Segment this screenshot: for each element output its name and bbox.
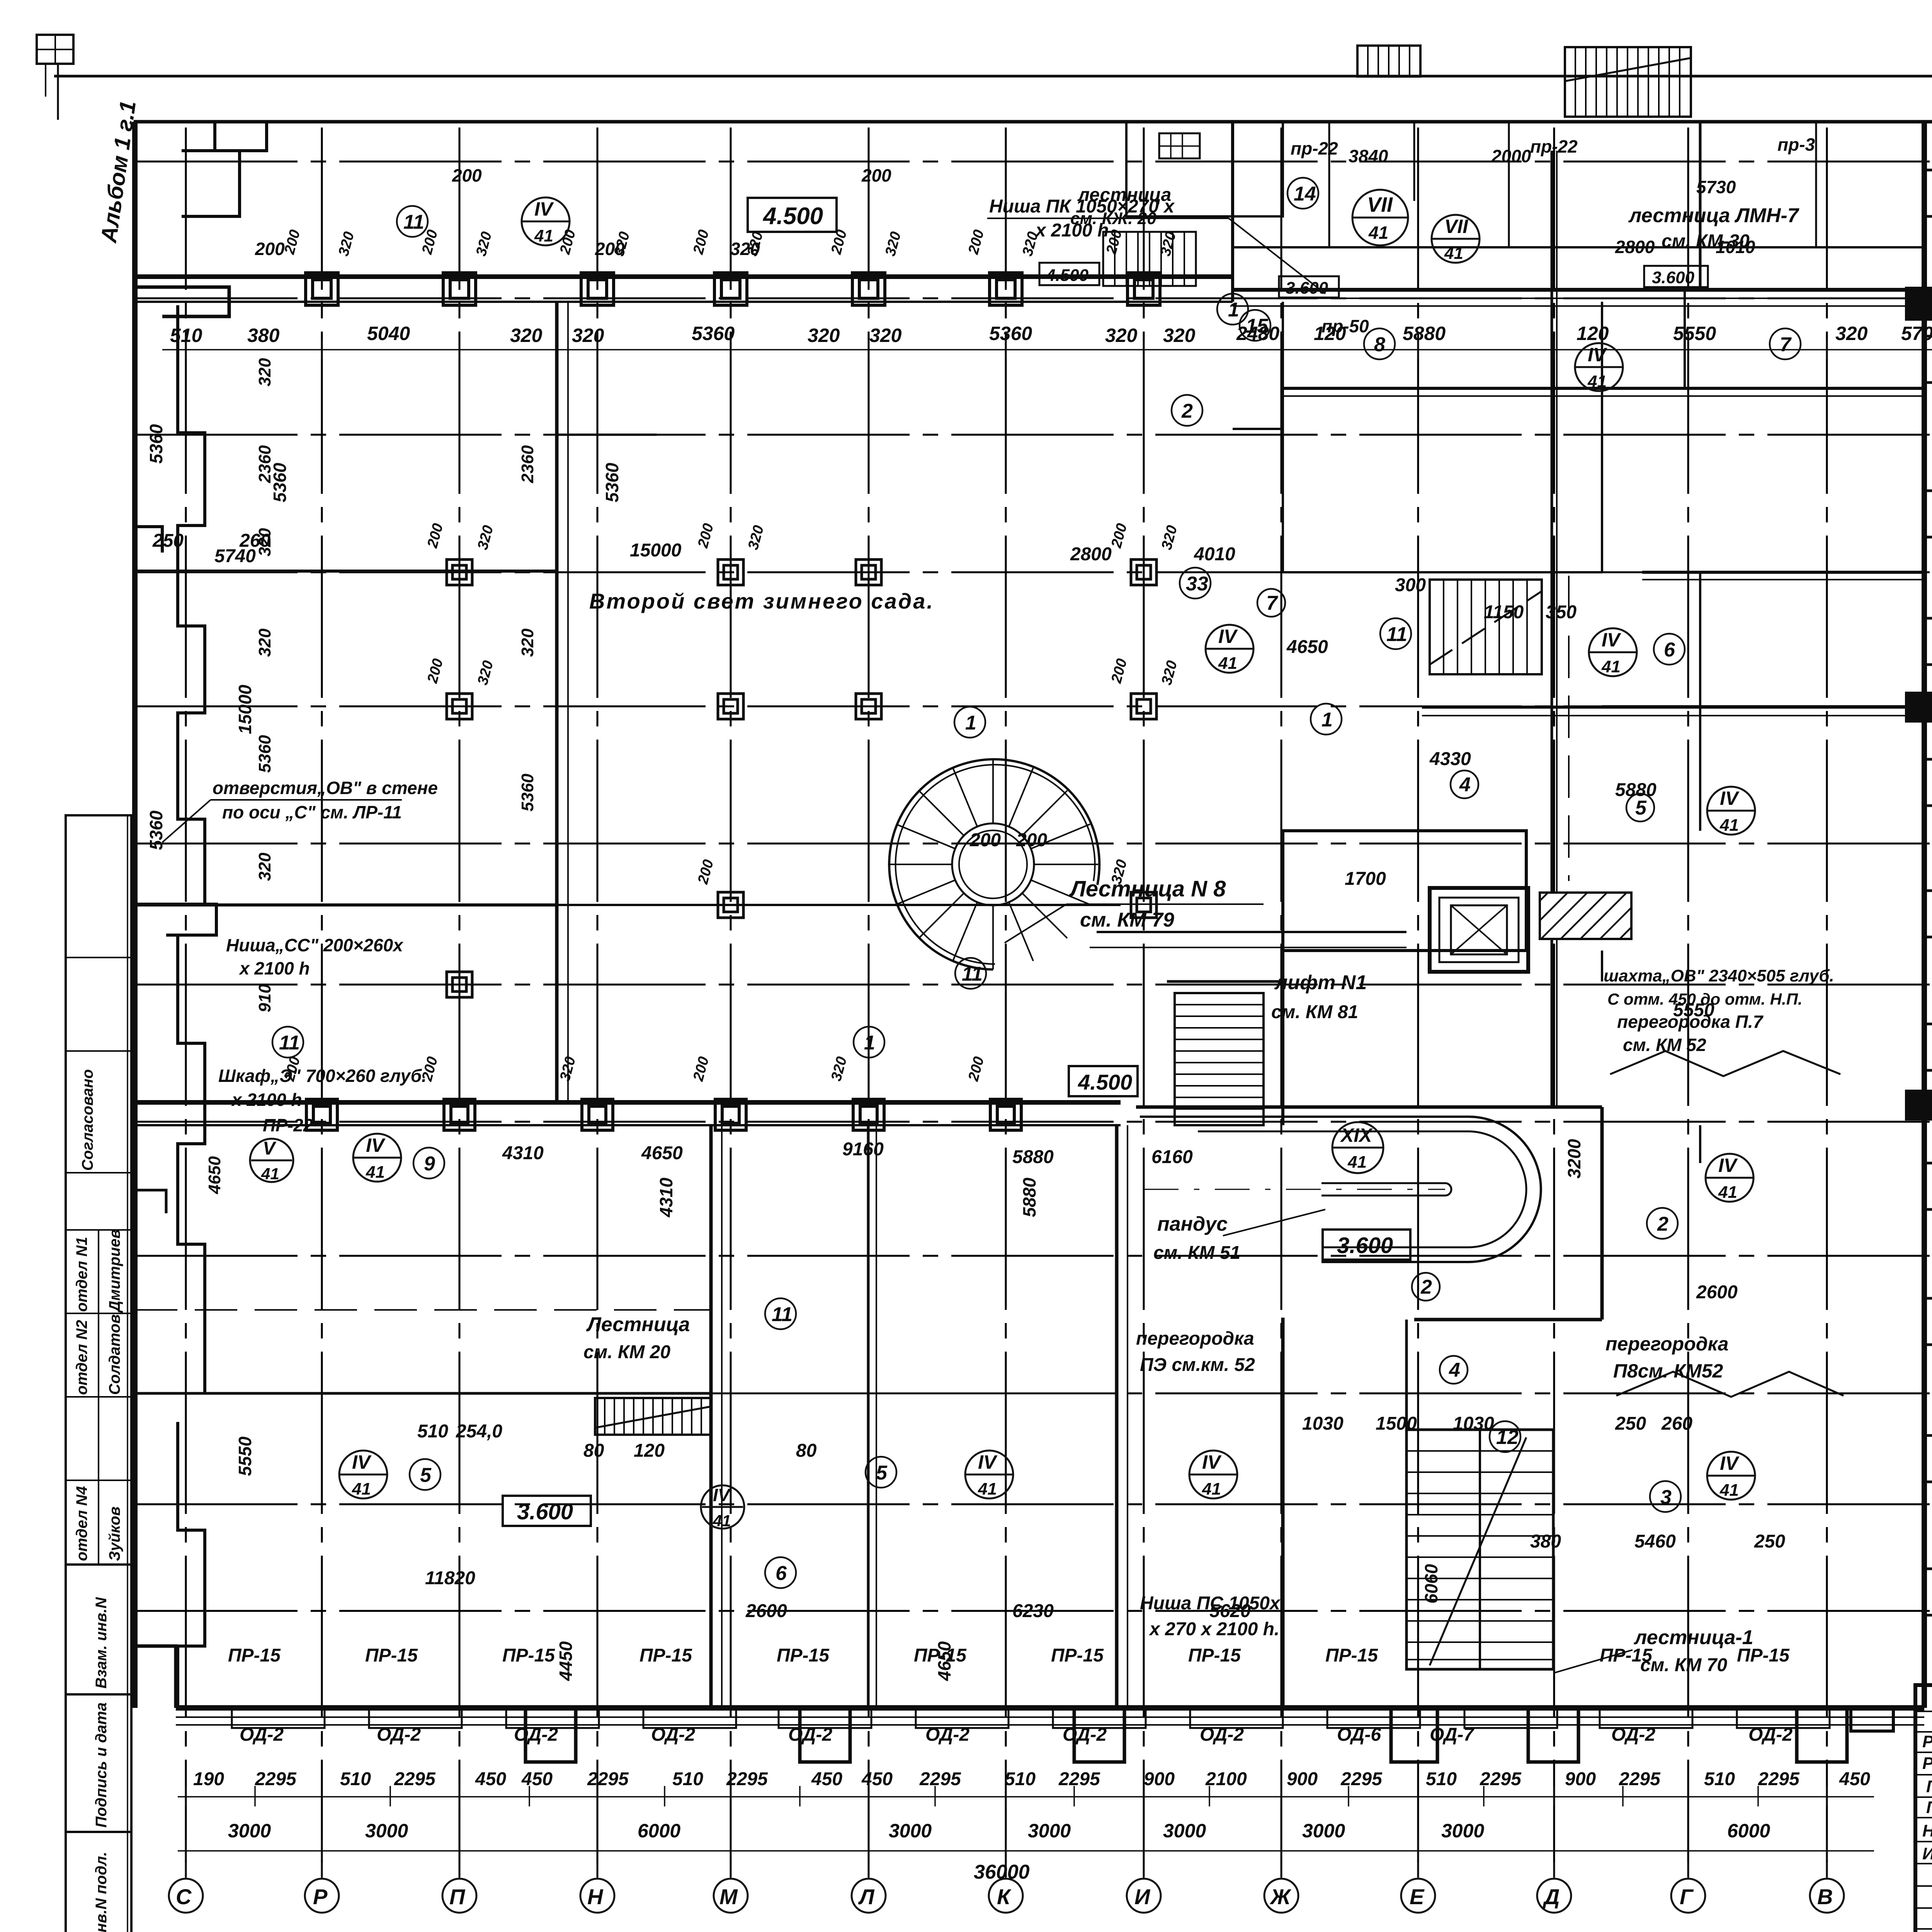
svg-text:41: 41 — [261, 1165, 279, 1183]
svg-text:15: 15 — [1246, 315, 1269, 337]
svg-text:4650: 4650 — [641, 1143, 683, 1163]
room walls right of stair block — [1699, 572, 1701, 831]
top right block: wall x4020 — [1551, 151, 1553, 1107]
svg-text:7: 7 — [1780, 333, 1792, 356]
zigzag partition П.7 — [1610, 1051, 1840, 1076]
svg-text:1150: 1150 — [1484, 602, 1524, 622]
svg-text:х 2100 h: х 2100 h — [238, 958, 310, 978]
horizontal axis 13 — [135, 298, 1932, 299]
svg-text:ПР-22: ПР-22 — [263, 1115, 313, 1135]
winter garden internal wall axis 11 — [135, 570, 557, 573]
svg-text:IV: IV — [1718, 1155, 1738, 1176]
svg-text:М: М — [719, 1884, 738, 1909]
bottom wall inner lines — [176, 1716, 1924, 1718]
svg-text:ПР-15: ПР-15 — [1188, 1645, 1241, 1666]
horizontal axis 4 — [135, 1503, 1932, 1505]
svg-text:отдел N4: отдел N4 — [73, 1486, 90, 1561]
svg-text:5: 5 — [420, 1464, 432, 1486]
svg-text:2295: 2295 — [919, 1769, 961, 1789]
svg-text:320: 320 — [255, 528, 274, 556]
svg-text:2800: 2800 — [1615, 237, 1655, 257]
elevation box 4.500 small — [1039, 263, 1099, 285]
bottom window labels ОД-2 — [240, 1725, 1793, 1745]
svg-text:320: 320 — [474, 524, 497, 551]
svg-text:320: 320 — [869, 325, 902, 346]
svg-text:6000: 6000 — [1727, 1820, 1770, 1842]
svg-text:ОД-2: ОД-2 — [377, 1725, 421, 1745]
svg-text:4: 4 — [1449, 1359, 1460, 1381]
svg-text:320: 320 — [510, 325, 543, 346]
svg-text:2800: 2800 — [1070, 544, 1112, 565]
svg-text:ОД-2: ОД-2 — [240, 1725, 284, 1745]
svg-text:3200: 3200 — [1564, 1139, 1584, 1179]
svg-text:ГИП: ГИП — [1926, 1798, 1932, 1817]
mid area dims — [152, 531, 1785, 1621]
svg-text:5360: 5360 — [146, 810, 166, 850]
svg-text:1030: 1030 — [1302, 1413, 1344, 1434]
svg-text:15000: 15000 — [235, 685, 255, 734]
svg-text:3000: 3000 — [228, 1820, 271, 1842]
vertical axis М — [730, 128, 732, 1877]
letter axis circle К — [989, 1879, 1023, 1913]
top dim chain — [162, 340, 1932, 359]
svg-text:ОД-7: ОД-7 — [1430, 1725, 1475, 1745]
svg-text:Л: Л — [858, 1884, 875, 1909]
svg-text:2295: 2295 — [1480, 1769, 1522, 1789]
svg-text:4: 4 — [1459, 774, 1471, 796]
svg-text:ОД-6: ОД-6 — [1337, 1725, 1381, 1745]
svg-text:4.500: 4.500 — [1046, 266, 1089, 285]
svg-text:320: 320 — [473, 230, 495, 258]
vertical axis Н — [597, 128, 599, 1877]
svg-text:320: 320 — [255, 852, 274, 881]
svg-text:перегородка: перегородка — [1605, 1333, 1728, 1355]
svg-text:5880: 5880 — [1012, 1147, 1054, 1167]
svg-text:VII: VII — [1367, 193, 1393, 216]
svg-text:320: 320 — [808, 325, 840, 346]
svg-text:П8см. КМ52: П8см. КМ52 — [1613, 1360, 1723, 1382]
svg-text:ПР-15: ПР-15 — [777, 1645, 830, 1666]
svg-text:41: 41 — [1719, 816, 1739, 835]
wall along axis 10 right part — [1422, 706, 1924, 709]
svg-text:320: 320 — [572, 325, 604, 346]
svg-text:380: 380 — [1530, 1531, 1561, 1552]
type mark Ⅳ/41 circles — [250, 190, 1755, 1530]
letter axis circle Н — [580, 1879, 614, 1913]
svg-text:320: 320 — [255, 628, 274, 657]
svg-text:320: 320 — [557, 1055, 579, 1083]
svg-text:ПР-15: ПР-15 — [1600, 1645, 1653, 1666]
right exterior wall — [1922, 122, 1927, 1708]
ramp room top wall — [1136, 1105, 1602, 1109]
svg-text:6160: 6160 — [1151, 1147, 1193, 1167]
vertical axis В — [1826, 128, 1828, 1877]
bottom window sill boxes ОД-2 — [232, 1708, 1830, 1728]
svg-text:200: 200 — [965, 228, 987, 256]
bottom exterior wall — [176, 1705, 1924, 1711]
letter axis circle И — [1127, 1879, 1161, 1913]
partition between studios x2250 — [867, 1125, 870, 1708]
vertical axis Д — [1553, 128, 1555, 1877]
svg-text:2600: 2600 — [745, 1601, 787, 1621]
ramp centerline dash — [1144, 1189, 1445, 1190]
svg-text:2360: 2360 — [255, 445, 274, 483]
svg-text:по оси „С" см. ЛР-11: по оси „С" см. ЛР-11 — [222, 802, 402, 822]
svg-text:отверстия„ОВ" в стене: отверстия„ОВ" в стене — [213, 778, 438, 798]
svg-text:41: 41 — [534, 226, 553, 245]
svg-text:6060: 6060 — [1421, 1564, 1441, 1604]
svg-text:2: 2 — [1420, 1276, 1432, 1298]
svg-text:Ж: Ж — [1269, 1884, 1292, 1909]
winter garden right wall — [555, 302, 559, 1102]
svg-text:41: 41 — [1719, 1481, 1739, 1500]
svg-text:510: 510 — [672, 1769, 703, 1789]
svg-text:9160: 9160 — [842, 1139, 884, 1160]
svg-text:Д: Д — [1543, 1884, 1560, 1909]
svg-text:6: 6 — [776, 1562, 787, 1585]
svg-text:Г: Г — [1680, 1884, 1694, 1909]
letter axis circle Л — [852, 1879, 886, 1913]
ramp room right wall — [1600, 1107, 1604, 1320]
svg-text:11: 11 — [279, 1032, 300, 1054]
upper-mid room walls above axis 13 (vestibule) — [1233, 302, 1283, 429]
svg-text:320: 320 — [1019, 230, 1041, 258]
svg-text:Дмитриев: Дмитриев — [106, 1229, 123, 1313]
svg-text:3: 3 — [1660, 1486, 1672, 1509]
right wall corridor junction pier — [1905, 287, 1932, 321]
winter garden left wall rotated dims — [205, 358, 537, 1194]
svg-text:33: 33 — [1186, 573, 1208, 595]
letter axis circle Г — [1671, 1879, 1705, 1913]
svg-text:11820: 11820 — [425, 1568, 475, 1588]
title block outer frame — [1915, 1685, 1932, 1932]
svg-text:П: П — [449, 1884, 466, 1909]
svg-text:250: 250 — [1615, 1413, 1646, 1434]
svg-text:Шкаф„Э" 700×260 глуб.: Шкаф„Э" 700×260 глуб. — [218, 1066, 427, 1086]
svg-text:ПР-15: ПР-15 — [639, 1645, 692, 1666]
vertical axis Р — [321, 128, 323, 1877]
svg-text:200: 200 — [419, 1055, 441, 1083]
svg-text:510: 510 — [340, 1769, 371, 1789]
svg-text:1010: 1010 — [1716, 237, 1755, 257]
svg-text:лестница ЛМН-7: лестница ЛМН-7 — [1628, 204, 1799, 227]
svg-text:5550: 5550 — [235, 1436, 255, 1476]
svg-text:5360: 5360 — [518, 774, 537, 811]
svg-text:4310: 4310 — [656, 1177, 676, 1218]
left wall niche 2 — [135, 287, 229, 316]
horizontal axis 10 — [135, 706, 1932, 707]
svg-text:5730: 5730 — [1696, 177, 1736, 197]
svg-text:14: 14 — [1294, 183, 1316, 205]
svg-text:5620: 5620 — [1209, 1601, 1251, 1621]
svg-text:4310: 4310 — [502, 1143, 544, 1163]
svg-text:Второй свет зимнего сада.: Второй свет зимнего сада. — [589, 589, 934, 613]
svg-text:К: К — [997, 1884, 1012, 1909]
vertical axis П — [459, 128, 461, 1877]
svg-text:Лестница: Лестница — [586, 1313, 690, 1336]
top right block: wall x3190 — [1231, 122, 1234, 302]
bottom dim chain 1 — [178, 1786, 1874, 1806]
svg-text:4010: 4010 — [1194, 544, 1235, 565]
svg-text:900: 900 — [1287, 1769, 1318, 1789]
svg-text:41: 41 — [713, 1512, 731, 1530]
svg-text:320: 320 — [744, 230, 766, 258]
svg-text:250: 250 — [1754, 1531, 1785, 1552]
svg-text:Ниша ПК 1050×270 х: Ниша ПК 1050×270 х — [989, 196, 1175, 217]
svg-text:XIX: XIX — [1340, 1124, 1373, 1146]
svg-text:2295: 2295 — [726, 1769, 768, 1789]
upper corridor wall right continuation (multi-line band) — [1233, 288, 1924, 292]
elevation box 3.600 bottom left — [503, 1496, 591, 1526]
letter axis circle М — [714, 1879, 748, 1913]
svg-text:5550: 5550 — [1673, 323, 1716, 344]
svg-text:см. КМ 51: см. КМ 51 — [1153, 1243, 1240, 1263]
top dims row — [170, 323, 1932, 346]
svg-text:ОД-2: ОД-2 — [651, 1725, 695, 1745]
svg-text:450: 450 — [861, 1769, 893, 1789]
svg-text:пр-22: пр-22 — [1530, 136, 1578, 156]
svg-text:3840: 3840 — [1349, 146, 1388, 166]
connectors letters to circles — [185, 1862, 187, 1879]
horizontal axis 6 — [135, 1255, 1932, 1257]
left lower stair (КМ 20) — [595, 1398, 711, 1435]
svg-text:80: 80 — [583, 1440, 604, 1461]
svg-text:2295: 2295 — [1340, 1769, 1383, 1789]
svg-text:320: 320 — [611, 230, 633, 258]
svg-text:9: 9 — [424, 1153, 435, 1175]
dashed wall x4060 — [1568, 576, 1570, 881]
letter axis circle П — [442, 1879, 476, 1913]
svg-text:320: 320 — [1105, 325, 1138, 346]
svg-text:IV: IV — [1720, 1452, 1740, 1474]
svg-text:4.500: 4.500 — [1078, 1070, 1132, 1094]
vertical axis Ж — [1281, 128, 1282, 1877]
svg-text:320: 320 — [335, 230, 357, 258]
bottom stair (лестница N1 см.КМ 70) — [1406, 1430, 1553, 1669]
svg-text:Подпись и дата: Подпись и дата — [93, 1702, 110, 1828]
svg-text:IV: IV — [352, 1451, 372, 1473]
svg-text:2000: 2000 — [1491, 146, 1531, 166]
svg-text:200: 200 — [695, 858, 717, 886]
letter axis circle Е — [1401, 1879, 1435, 1913]
wall along axis 11 right part — [1642, 571, 1924, 574]
spiral stair treads — [888, 759, 1098, 969]
svg-text:х 2100 h: х 2100 h — [231, 1090, 302, 1110]
svg-text:254,0: 254,0 — [456, 1421, 502, 1442]
corner stamp mark — [37, 35, 73, 64]
svg-text:шахта„ОВ" 2340×505 глуб.: шахта„ОВ" 2340×505 глуб. — [1604, 966, 1834, 985]
svg-text:200: 200 — [1108, 657, 1130, 685]
elevation box 4.500 room 11 — [748, 198, 837, 232]
spiral stair inner ring — [952, 823, 1034, 905]
svg-text:ОД-2: ОД-2 — [925, 1725, 969, 1745]
left wall step at axis 11 — [135, 527, 162, 553]
svg-text:IV: IV — [1720, 787, 1740, 809]
columns on upper corridor — [306, 273, 1160, 305]
svg-text:ГАП: ГАП — [1926, 1777, 1932, 1796]
vertical axis С — [185, 128, 187, 1877]
svg-text:ОД-2: ОД-2 — [1748, 1725, 1793, 1745]
svg-text:320: 320 — [1835, 323, 1868, 344]
svg-text:ОД-2: ОД-2 — [1611, 1725, 1655, 1745]
wall between rooms 8 and 7 — [1684, 290, 1686, 388]
wall under axis 9 left — [135, 903, 557, 906]
bottom dim row 2 (axis spans) — [228, 1820, 1770, 1842]
svg-text:3000: 3000 — [1163, 1820, 1206, 1842]
svg-text:5360: 5360 — [989, 323, 1032, 344]
svg-text:250: 250 — [152, 531, 184, 551]
horizontal axis 8 — [135, 984, 1932, 986]
svg-text:2360: 2360 — [518, 445, 537, 483]
svg-text:пандус: пандус — [1157, 1213, 1228, 1235]
free-standing columns — [447, 560, 1156, 997]
right wall window bays — [1924, 170, 1932, 216]
svg-text:V: V — [263, 1138, 277, 1159]
svg-text:Взам. инв.N: Взам. инв.N — [93, 1597, 110, 1689]
svg-text:200: 200 — [690, 1055, 712, 1083]
svg-text:3.600: 3.600 — [1337, 1233, 1393, 1258]
svg-text:41: 41 — [352, 1480, 371, 1498]
svg-text:пр-22: пр-22 — [1291, 138, 1338, 158]
bottom dim row 1 — [193, 1769, 1870, 1789]
top right small room walls — [1328, 122, 1330, 247]
svg-text:8: 8 — [1374, 333, 1385, 356]
svg-text:41: 41 — [1601, 657, 1621, 676]
wall band below rooms 8/7 — [1283, 387, 1924, 390]
svg-text:1: 1 — [1228, 299, 1239, 321]
svg-text:5040: 5040 — [367, 323, 410, 344]
svg-text:ПР-15: ПР-15 — [365, 1645, 418, 1666]
vertical axis К — [1005, 128, 1007, 1877]
svg-text:ПР-15: ПР-15 — [502, 1645, 555, 1666]
svg-text:200: 200 — [1108, 522, 1130, 550]
letter axis circle Р — [305, 1879, 339, 1913]
room partition walls, lower half — [709, 1125, 713, 1708]
svg-text:200: 200 — [695, 522, 717, 550]
left inner wall stepped band — [178, 305, 205, 905]
upper stair ЛМН-7 hatch — [1565, 47, 1691, 117]
elevator лифт N1 shaft — [1430, 888, 1528, 972]
svg-text:320: 320 — [745, 524, 767, 551]
svg-text:260: 260 — [1661, 1413, 1692, 1434]
svg-text:Зуйков: Зуйков — [106, 1507, 123, 1561]
svg-text:41: 41 — [978, 1480, 997, 1498]
мойка room top center — [1126, 122, 1233, 216]
svg-text:5360: 5360 — [692, 323, 735, 344]
svg-text:IV: IV — [978, 1451, 998, 1473]
horizontal axis 7 — [135, 1121, 1932, 1123]
svg-text:3000: 3000 — [1028, 1820, 1071, 1842]
svg-text:2295: 2295 — [1619, 1769, 1661, 1789]
svg-text:320: 320 — [1158, 659, 1180, 687]
svg-text:1700: 1700 — [1345, 869, 1386, 889]
svg-text:510: 510 — [417, 1421, 448, 1442]
svg-text:41: 41 — [1444, 244, 1463, 263]
ramp пандус outer rail — [1140, 1117, 1541, 1262]
svg-text:3000: 3000 — [365, 1820, 408, 1842]
svg-text:1030: 1030 — [1453, 1413, 1494, 1434]
svg-text:2295: 2295 — [1758, 1769, 1800, 1789]
svg-text:11: 11 — [962, 963, 983, 985]
svg-text:см. КМ 20: см. КМ 20 — [583, 1342, 670, 1362]
svg-text:Рук.КБ-1: Рук.КБ-1 — [1922, 1754, 1932, 1773]
svg-text:320: 320 — [1158, 524, 1180, 551]
columns on middle corridor — [306, 1099, 1021, 1130]
svg-text:4.500: 4.500 — [762, 203, 823, 230]
svg-text:120: 120 — [634, 1440, 665, 1461]
svg-text:Ниша„СС" 200×260х: Ниша„СС" 200×260х — [226, 935, 404, 955]
vertical axis Л — [868, 128, 870, 1877]
svg-text:5360: 5360 — [146, 424, 166, 464]
svg-text:200: 200 — [861, 165, 891, 185]
svg-text:5880: 5880 — [1403, 323, 1446, 344]
svg-text:900: 900 — [1565, 1769, 1596, 1789]
small upper-center stair (КЖ 20) — [1103, 232, 1196, 286]
wall pieces right mid — [1601, 951, 1603, 981]
svg-text:2: 2 — [1657, 1213, 1668, 1235]
svg-text:41: 41 — [366, 1163, 385, 1182]
svg-text:200: 200 — [281, 228, 303, 256]
svg-text:С: С — [176, 1884, 192, 1909]
svg-text:3000: 3000 — [1302, 1820, 1345, 1842]
svg-text:200: 200 — [1016, 830, 1047, 850]
svg-text:И: И — [1134, 1884, 1151, 1909]
vertical axis Е — [1417, 128, 1419, 1877]
horizontal axis 3 — [135, 1610, 1932, 1612]
wall from ramp to bottom, x3660 — [1405, 1320, 1408, 1430]
bottom window labels ПР-15 — [228, 1645, 1790, 1666]
svg-text:41: 41 — [1202, 1480, 1221, 1498]
svg-text:41: 41 — [1368, 223, 1388, 243]
upper area small dims — [255, 134, 1815, 336]
svg-text:см. КМ 52: см. КМ 52 — [1623, 1035, 1706, 1055]
svg-text:3.600: 3.600 — [1652, 268, 1695, 287]
svg-text:см. КМ 81: см. КМ 81 — [1271, 1002, 1358, 1022]
svg-text:см. КМ 70: см. КМ 70 — [1640, 1655, 1727, 1675]
svg-text:Н.контр.: Н.контр. — [1922, 1821, 1932, 1840]
letter axis circle Д — [1537, 1879, 1571, 1913]
wall at axis 12 from winter garden to right — [557, 434, 657, 436]
svg-text:15000: 15000 — [630, 540, 682, 561]
svg-text:1500: 1500 — [1376, 1413, 1417, 1434]
svg-text:12: 12 — [1496, 1426, 1519, 1449]
svg-text:320: 320 — [255, 358, 274, 386]
hatched shaft (шахта ОВ) — [1540, 893, 1631, 939]
svg-text:Е: Е — [1410, 1884, 1425, 1909]
svg-text:4650: 4650 — [1286, 637, 1328, 657]
svg-text:6: 6 — [1664, 639, 1675, 661]
svg-text:отдел N2: отдел N2 — [73, 1320, 90, 1395]
upper right partition walls around мойка — [1233, 122, 1283, 216]
ramp inner rail with hook — [1321, 1183, 1451, 1196]
svg-text:200: 200 — [424, 657, 446, 685]
stair flight above lift — [1430, 580, 1542, 674]
signature labels — [1922, 1732, 1932, 1863]
svg-text:11: 11 — [403, 211, 424, 233]
svg-text:41: 41 — [1718, 1183, 1737, 1202]
svg-text:В: В — [1817, 1884, 1833, 1909]
zigzag partition П8 — [1616, 1372, 1844, 1397]
svg-text:2100: 2100 — [1205, 1769, 1247, 1789]
svg-text:1: 1 — [864, 1032, 875, 1054]
spiral stair exit walkway — [1097, 931, 1406, 933]
svg-text:Р: Р — [313, 1884, 328, 1909]
svg-text:пр-50: пр-50 — [1321, 316, 1369, 336]
svg-text:3.600: 3.600 — [1286, 279, 1328, 298]
elevator car with cross — [1451, 905, 1507, 954]
svg-text:ПР-15: ПР-15 — [1051, 1645, 1104, 1666]
svg-text:5: 5 — [1635, 797, 1647, 819]
